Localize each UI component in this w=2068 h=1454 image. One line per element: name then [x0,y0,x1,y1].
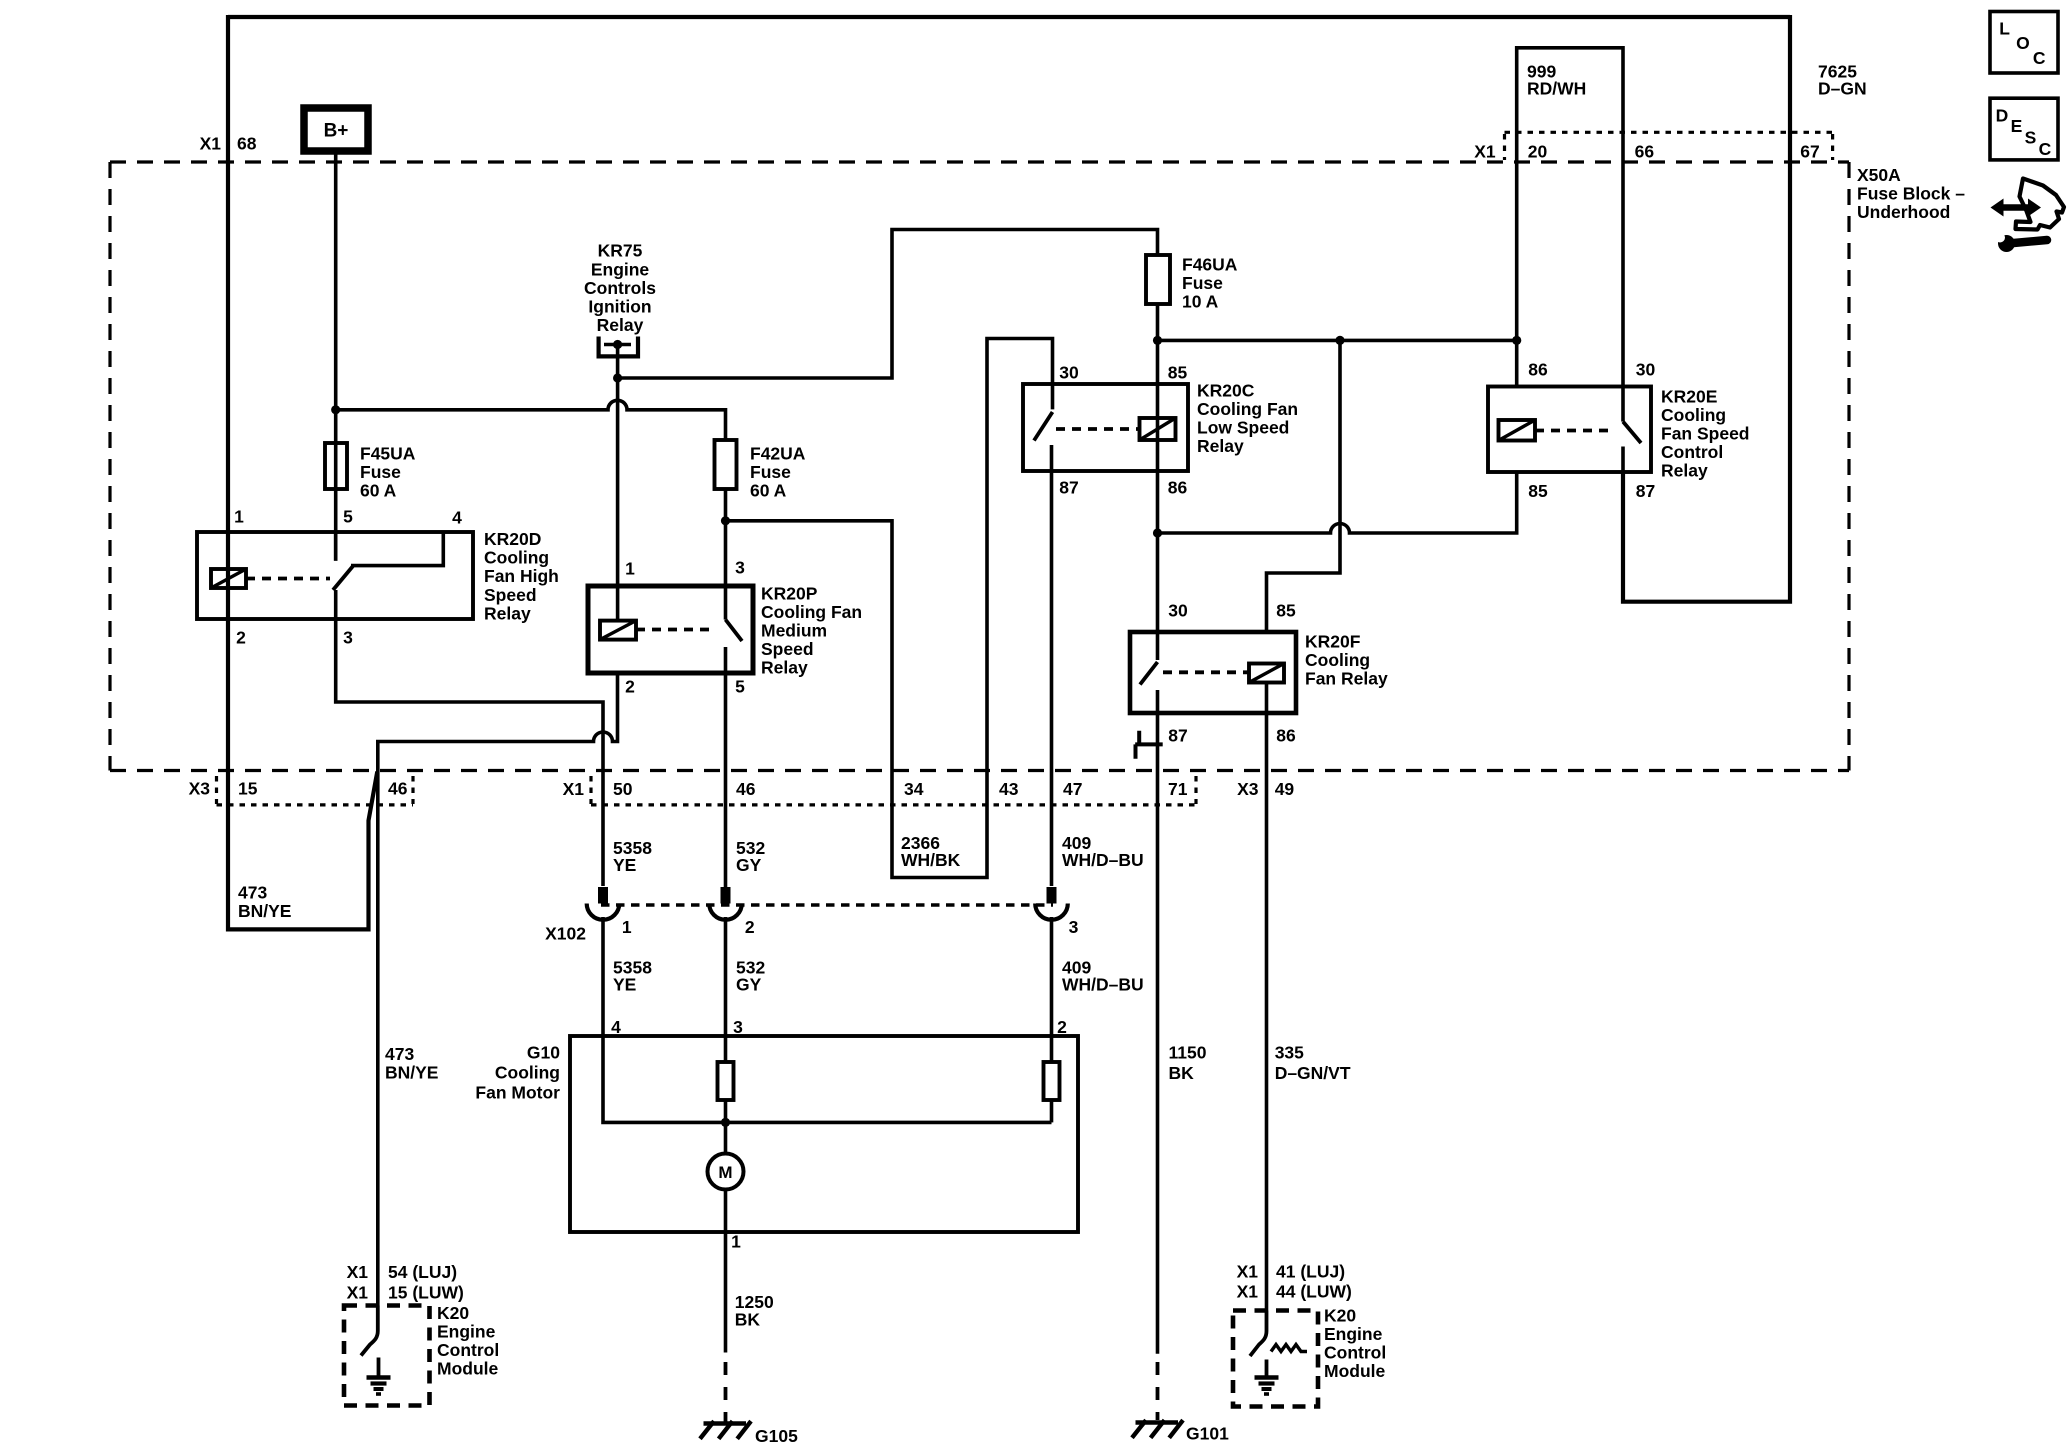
svg-text:49: 49 [1275,779,1295,799]
svg-text:K20: K20 [437,1303,469,1323]
wire 1250 BK to G105 [726,1232,774,1422]
wire KR75 to top bus [618,230,1158,379]
pin 5 stub [724,647,728,887]
svg-text:87: 87 [1168,726,1187,746]
wire F42UA to KR20P pin3 and branch to X1-34 [724,489,728,586]
svg-text:Engine: Engine [591,259,650,279]
svg-text:X1: X1 [347,1282,369,1302]
svg-text:GY: GY [736,855,762,875]
coil KR20F [1249,664,1284,683]
wire B+ feed vertical [334,151,338,561]
wire 7625 D-GN right vertical [1623,15,1790,602]
svg-text:3: 3 [343,628,353,648]
wire battery feed frame top [228,15,1790,19]
svg-text:Fuse: Fuse [1182,273,1223,293]
svg-text:KR20E: KR20E [1661,387,1717,407]
switch blade inside [361,1306,378,1356]
svg-text:Ignition: Ignition [588,297,651,317]
svg-text:BN/YE: BN/YE [385,1063,438,1083]
svg-text:68: 68 [237,134,257,154]
dashed link KR20P [636,628,716,632]
svg-text:Relay: Relay [1661,461,1708,481]
svg-text:Relay: Relay [597,315,644,335]
icon LOC box [1990,12,2058,74]
fuse F42UA [715,440,806,501]
wire 409 WH/D-BU lower segment [1052,917,1144,1036]
ECM K20 right (Engine Control Module) [1233,1306,1386,1407]
svg-text:46: 46 [736,779,756,799]
NC contact path to pin 4 [351,532,443,566]
svg-text:2: 2 [1057,1017,1067,1037]
svg-text:F46UA: F46UA [1182,255,1238,275]
winding element pin3 [724,1036,728,1062]
icon DESC box [1990,98,2058,160]
connector X1 bottom (pins 50 46 34 43 47 71) [563,776,1196,805]
svg-text:YE: YE [613,855,636,875]
svg-text:Cooling Fan: Cooling Fan [1197,399,1298,419]
svg-text:Low Speed: Low Speed [1197,418,1289,438]
label X50A Fuse Block Underhood [1857,165,1965,222]
svg-text:L: L [1999,18,2010,38]
svg-text:E: E [2011,116,2023,136]
ground G105 [700,1421,798,1446]
ground symbol inside right ECM [1265,1360,1269,1377]
svg-text:86: 86 [1168,478,1188,498]
svg-text:KR20F: KR20F [1305,632,1361,652]
svg-text:G105: G105 [755,1426,798,1446]
svg-text:44 (LUW): 44 (LUW) [1276,1282,1352,1302]
svg-text:BN/YE: BN/YE [238,901,291,921]
svg-text:KR20D: KR20D [484,529,541,549]
wire 2366 WH/BK jumper X1-34 to X1-43 [892,771,987,878]
svg-text:85: 85 [1528,481,1548,501]
pin 87 stub inside [1050,445,1054,471]
svg-text:X1: X1 [1237,1282,1259,1302]
node X1-54/15 label (left ECM pins) [347,1262,464,1303]
svg-text:30: 30 [1168,601,1188,621]
svg-text:Fuse Block –: Fuse Block – [1857,184,1965,204]
svg-text:KR20C: KR20C [1197,381,1255,401]
svg-text:5: 5 [343,507,353,527]
wire KR20C pin30 feed from X1-43 [987,339,1053,771]
svg-text:Control: Control [1324,1343,1386,1363]
svg-text:Fan High: Fan High [484,566,559,586]
svg-text:Underhood: Underhood [1857,202,1950,222]
svg-text:Relay: Relay [761,658,808,678]
svg-text:1: 1 [625,559,635,579]
svg-text:X1: X1 [1474,142,1496,162]
svg-text:5: 5 [735,677,745,697]
svg-text:50: 50 [613,779,633,799]
wire 1150 BK to G101 [1158,771,1207,1421]
svg-text:G101: G101 [1186,1424,1229,1444]
fuse F46UA [1146,255,1238,312]
svg-text:85: 85 [1168,363,1188,383]
svg-text:X1: X1 [200,134,222,154]
motor G10 Cooling Fan Motor [475,1017,1078,1252]
svg-text:3: 3 [735,558,745,578]
motor symbol M [724,1122,728,1153]
svg-text:Cooling: Cooling [1305,650,1370,670]
switch blade inside [1250,1311,1267,1357]
svg-text:B+: B+ [324,121,349,142]
svg-text:Fan Relay: Fan Relay [1305,669,1388,689]
svg-text:X3: X3 [189,779,211,799]
wire KR20F pin85 feed from F46UA node [1267,340,1341,632]
dashed link KR20D [246,577,330,581]
switch blade KR20E [1623,422,1641,443]
svg-text:Fuse: Fuse [360,462,401,482]
wire 5358 YE upper segment (X1-50 to X102-1) [613,838,652,875]
svg-text:X1: X1 [563,779,585,799]
svg-text:Fuse: Fuse [750,462,791,482]
switch blade KR20D [333,566,353,590]
svg-text:Control: Control [437,1340,499,1360]
svg-text:O: O [2016,33,2030,53]
connector X3 bottom-left (pins 15 46) [189,776,413,805]
svg-text:87: 87 [1636,481,1655,501]
svg-text:KR75: KR75 [598,241,643,261]
svg-text:YE: YE [613,975,636,995]
wire 999 RD/WH loop KR20E pin86 up through X1-20 over to pin30 via X1-66 [1517,48,1623,387]
svg-text:Speed: Speed [484,585,537,605]
svg-text:87: 87 [1059,478,1078,498]
wire KR20F pin87 to X1-71 with case-ground hook [1135,713,1163,771]
svg-text:X3: X3 [1237,779,1259,799]
svg-text:S: S [2025,128,2037,148]
svg-text:Relay: Relay [484,603,531,623]
svg-text:60 A: 60 A [750,481,787,501]
terminal X102-2 [709,887,742,920]
node X1-68 label [200,134,257,154]
svg-text:2: 2 [236,628,246,648]
ECM K20 left (Engine Control Module) [344,1303,499,1406]
internal bus [603,1036,1052,1122]
dashed link KR20F [1163,670,1249,674]
winding element pin2 [1050,1036,1054,1062]
svg-text:473: 473 [385,1044,414,1064]
pin 87 stub [1621,447,1625,473]
svg-text:F42UA: F42UA [750,444,806,464]
svg-text:D–GN/VT: D–GN/VT [1275,1063,1351,1083]
svg-text:Medium: Medium [761,621,827,641]
relay KR20C Cooling Fan Low Speed Relay [1023,363,1298,498]
svg-text:C: C [2033,48,2046,68]
svg-text:KR20P: KR20P [761,584,818,604]
switch blade KR20P [726,620,743,641]
svg-text:Cooling Fan: Cooling Fan [761,602,862,622]
svg-text:BK: BK [735,1310,761,1330]
node X3-49 label [1237,779,1294,799]
wire 532 GY lower segment [726,917,766,1036]
svg-text:3: 3 [1069,917,1079,937]
svg-text:X50A: X50A [1857,165,1901,185]
coil KR20P [600,621,636,640]
wire X1-68 feed left vertical [228,15,377,929]
node X1-41/44 label (right ECM pins) [1237,1262,1352,1302]
svg-text:WH/BK: WH/BK [901,850,961,870]
svg-text:473: 473 [238,883,267,903]
svg-text:1: 1 [622,917,632,937]
svg-text:Relay: Relay [1197,436,1244,456]
B+ terminal [304,108,368,151]
wire 532 GY upper segment [736,838,765,875]
wire 335 D-GN/VT to ECM [1267,771,1351,1311]
svg-text:Control: Control [1661,442,1723,462]
svg-text:X1: X1 [1237,1262,1259,1282]
svg-text:Cooling: Cooling [495,1063,560,1083]
relay KR20P Cooling Fan Medium Speed Relay [588,558,862,888]
svg-text:1: 1 [731,1232,741,1252]
wire KR20P pin2 to X3-46 with hop over pin3-drop [378,673,618,1306]
svg-text:Cooling: Cooling [1661,405,1726,425]
svg-text:Module: Module [1324,1361,1386,1381]
svg-text:C: C [2039,139,2052,159]
svg-text:1: 1 [234,507,244,527]
svg-text:10 A: 10 A [1182,292,1219,312]
connector X1 top (pins 20 66 67) [1474,132,1832,161]
svg-text:F45UA: F45UA [360,444,416,464]
pin 5 stub inside [334,532,338,561]
svg-text:WH/D–BU: WH/D–BU [1062,850,1144,870]
svg-text:Controls: Controls [584,278,656,298]
svg-text:Speed: Speed [761,639,814,659]
wire KR20D pin3 to X1-50 [336,590,603,886]
dashed link KR20C [1056,427,1140,431]
relay KR20D Cooling Fan High Speed Relay [197,507,559,648]
svg-text:K20: K20 [1324,1306,1356,1326]
wire 409 WH/D-BU upper segment (X1-47 to X102-3) [1062,833,1144,870]
svg-text:41 (LUJ): 41 (LUJ) [1276,1262,1345,1282]
wire KR75 coil feed down to KR20P pin 1 [616,378,620,621]
ground symbol inside left ECM [377,1358,381,1377]
svg-text:20: 20 [1528,142,1548,162]
svg-text:Engine: Engine [1324,1324,1383,1344]
coil KR20C [1140,418,1176,440]
coil KR20D [211,569,246,588]
svg-text:M: M [718,1163,732,1182]
svg-text:4: 4 [611,1017,621,1037]
svg-text:4: 4 [452,508,462,528]
switch blade KR20C [1034,412,1053,441]
ground G101 [1132,1420,1229,1443]
svg-text:30: 30 [1059,363,1079,383]
svg-text:X102: X102 [545,924,586,944]
label 7625 D-GN [1818,62,1867,99]
svg-text:71: 71 [1168,779,1188,799]
svg-text:D–GN: D–GN [1818,79,1867,99]
terminal X102-1 [587,887,620,920]
svg-text:1150: 1150 [1169,1043,1207,1063]
fuse F45UA [325,443,416,501]
terminal X102-3 [1035,887,1068,920]
wire 473 BN/YE label lower [385,1044,438,1083]
icon service arrow with wrench [1991,179,2065,253]
coil KR20E [1499,420,1536,441]
svg-text:3: 3 [733,1017,743,1037]
svg-text:Fan Speed: Fan Speed [1661,424,1750,444]
relay KR75 Engine Controls Ignition Relay (coil reference symbol) [584,241,656,378]
svg-text:2: 2 [625,677,635,697]
svg-text:Module: Module [437,1359,499,1379]
svg-text:Cooling: Cooling [484,548,549,568]
svg-text:66: 66 [1635,142,1655,162]
svg-text:86: 86 [1276,726,1296,746]
svg-text:335: 335 [1275,1043,1304,1063]
svg-text:Engine: Engine [437,1322,496,1342]
driver sawtooth symbol [1271,1345,1307,1352]
junction B+ node [331,405,340,414]
svg-text:15: 15 [238,779,258,799]
svg-text:G10: G10 [527,1043,560,1063]
svg-text:67: 67 [1800,142,1819,162]
relay KR20F Cooling Fan Relay [1130,601,1388,746]
svg-text:RD/WH: RD/WH [1527,79,1586,99]
wire KR20F pin86 to X3-49 [1265,683,1269,771]
pin 30 stub inside [1621,387,1625,422]
junction KR75 node [613,373,622,382]
pin 3 stub inside [724,586,728,620]
svg-text:47: 47 [1063,779,1082,799]
wire B+ to F42UA horizontal with hop over KR75 wire [336,400,726,440]
fuse block X50A dashed border [110,162,1849,771]
wire KR20C pin87 to X1-47 [1050,471,1054,886]
svg-text:46: 46 [388,779,408,799]
svg-text:BK: BK [1169,1063,1195,1083]
svg-text:X1: X1 [347,1262,369,1282]
wire KR20C pin86 node to KR20E pin85 with hop at x1340 [1156,471,1160,533]
svg-text:34: 34 [904,779,924,799]
svg-text:Fan Motor: Fan Motor [475,1083,560,1103]
dashed link KR20E [1535,429,1612,433]
svg-text:60 A: 60 A [360,481,397,501]
svg-text:86: 86 [1528,360,1548,380]
switch blade KR20F [1140,662,1158,685]
wire 473 BN/YE label upper [238,883,291,922]
svg-text:85: 85 [1276,601,1296,621]
svg-text:2: 2 [745,917,755,937]
connector X102 inline [545,905,1079,944]
svg-text:15 (LUW): 15 (LUW) [388,1282,464,1302]
relay KR20E Cooling Fan Speed Control Relay [1488,360,1750,502]
svg-text:D: D [1996,105,2009,125]
svg-text:GY: GY [736,975,762,995]
wire KR20C-86 to KR20F-30 [1156,533,1160,660]
pin 87 stub inside [1156,690,1160,713]
svg-text:54 (LUJ): 54 (LUJ) [388,1262,457,1282]
svg-text:WH/D–BU: WH/D–BU [1062,975,1144,995]
svg-text:43: 43 [999,779,1019,799]
wire F46UA output node [1156,304,1160,384]
wire KR20C pin85 coil feed [1156,384,1160,471]
wire 5358 YE lower segment [603,917,652,1036]
svg-text:30: 30 [1636,360,1656,380]
